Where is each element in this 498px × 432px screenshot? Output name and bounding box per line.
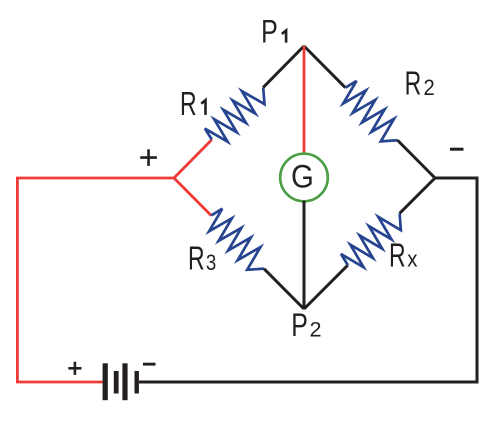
resistor R2 (zigzag) [343, 81, 397, 141]
label P1 [261, 15, 286, 51]
svg-text:R: R [180, 86, 197, 123]
svg-text:2: 2 [310, 316, 322, 341]
wire: black segment P2 to Rx [304, 265, 348, 309]
galvanometer G circle [280, 154, 328, 202]
polarity - at node right [450, 148, 464, 151]
svg-text:G: G [291, 158, 314, 194]
wire: red segment node(+) to R3 [174, 178, 211, 215]
svg-text:R: R [405, 66, 422, 103]
svg-text:R: R [188, 241, 205, 278]
label R3 [188, 241, 216, 278]
polarity + at battery [68, 367, 81, 370]
label R2 [405, 66, 435, 103]
resistor R3 (zigzag) [209, 209, 264, 270]
battery cell plate long 1 [103, 363, 108, 400]
label Rx [389, 237, 418, 274]
svg-text:P: P [261, 15, 278, 51]
label P2 [291, 308, 321, 344]
battery cell plate long 2 [122, 363, 127, 400]
wire: red segment node(+) to R1 [174, 140, 212, 178]
svg-text:R: R [389, 237, 406, 274]
wire: black segment Rx to node(-) [400, 178, 435, 213]
polarity - at battery [143, 363, 156, 366]
polarity + at node left [140, 156, 157, 159]
resistor Rx (zigzag) [341, 213, 401, 267]
svg-text:3: 3 [206, 251, 216, 276]
wire: black segment R1 to P1 [263, 46, 304, 87]
svg-text:P: P [291, 308, 308, 344]
wire: black galvanometer to P2 [303, 201, 306, 309]
wire: black segment R2 to node(-) [398, 140, 435, 178]
battery cell plate short 1 [114, 371, 119, 394]
wire: red battery + lead (left loop) [17, 178, 174, 382]
svg-text:2: 2 [423, 75, 434, 100]
label R1 [180, 86, 205, 123]
wire: red P1 to galvanometer [303, 46, 306, 155]
svg-text:x: x [407, 248, 418, 272]
battery cell plate short 2 [135, 371, 139, 394]
resistor R1 (zigzag) [205, 87, 265, 141]
wire: black segment R3 to P2 [264, 269, 304, 309]
wire: black segment P1 to R2 [304, 46, 345, 88]
wire: black battery - lead (right loop) [139, 178, 477, 382]
